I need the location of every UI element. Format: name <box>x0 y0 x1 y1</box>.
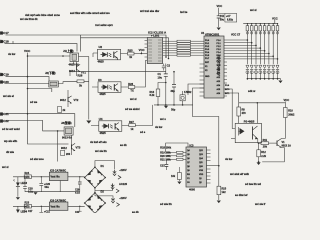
svg-text:2.2k: 2.2k <box>261 155 266 158</box>
svg-text:as dk: as dk <box>120 143 127 147</box>
output node <box>258 142 260 144</box>
svg-text:ds kw: ds kw <box>8 52 16 56</box>
svg-text:VCC: VCC <box>284 98 290 102</box>
bridge D1 <box>84 166 106 188</box>
transistor VT2 <box>68 96 72 104</box>
capacitor C7 (boxed) <box>225 14 237 23</box>
LED column 7 <box>272 24 275 80</box>
svg-text:~220V: ~220V <box>119 168 127 172</box>
svg-text:dk wle: dk wle <box>6 150 14 154</box>
svg-text:+C21: +C21 <box>44 210 50 213</box>
svg-text:4060: 4060 <box>189 188 195 192</box>
ground <box>86 121 91 124</box>
svg-text:9013 2A: 9013 2A <box>282 145 292 148</box>
svg-text:sd we: sd we <box>30 100 38 104</box>
LED column 2 <box>250 24 253 80</box>
svg-text:10k: 10k <box>171 175 176 178</box>
bridge D2 <box>84 192 106 214</box>
svg-text:接C19: 接C19 <box>0 72 9 77</box>
svg-text:470: 470 <box>26 176 31 179</box>
wire to bridge <box>68 176 85 178</box>
svg-text:PS-4N25: PS-4N25 <box>244 120 255 124</box>
svg-text:4N25: 4N25 <box>98 60 105 64</box>
AC wires row1 <box>95 161 115 170</box>
svg-text:20k: 20k <box>263 145 268 148</box>
gnd rail 1 <box>25 191 80 193</box>
svg-text:200: 200 <box>66 153 71 156</box>
ground (LED3) <box>16 197 20 200</box>
emitter down and left <box>262 148 284 162</box>
wire C18 to J1 <box>13 44 77 52</box>
wire J2 to R28 <box>58 82 67 84</box>
transistor VT1 <box>77 64 81 72</box>
svg-text:17M02: 17M02 <box>184 91 192 94</box>
resistor R10 <box>284 103 286 108</box>
wire mid horizontal <box>70 72 166 76</box>
background scan noise <box>2 8 265 214</box>
svg-text:sd alw woe: sd alw woe <box>30 157 44 161</box>
svg-text:D1: D1 <box>101 164 105 168</box>
svg-text:8.2k: 8.2k <box>150 94 155 97</box>
svg-text:R21 100k: R21 100k <box>160 158 171 161</box>
svg-text:sd e: sd e <box>140 130 146 134</box>
svg-text:LED3: LED3 <box>21 182 28 185</box>
power supply rail 2 <box>13 205 49 207</box>
drop to opto collector <box>256 103 258 124</box>
wire to bus <box>81 38 169 59</box>
svg-text:asd flkw eifn sdle wnvd askd w: asd flkw eifn sdle wnvd askd we <box>70 11 110 15</box>
svg-text:R27: R27 <box>129 120 134 124</box>
resistor R15 <box>217 186 221 195</box>
LED column 8 <box>276 24 279 80</box>
svg-text:R12: R12 <box>261 151 266 154</box>
svg-text:R18 200k: R18 200k <box>160 146 171 149</box>
svg-text:J1(上载): J1(上载) <box>63 49 74 53</box>
svg-text:0.1u: 0.1u <box>28 191 33 194</box>
svg-text:~220V: ~220V <box>119 196 127 200</box>
transistor VT3 <box>72 143 76 151</box>
svg-text:C17: C17 <box>28 210 33 213</box>
cap 30p <box>173 72 175 105</box>
junction node <box>173 71 175 73</box>
svg-text:+C7: +C7 <box>226 15 231 18</box>
svg-text:AT89C2051: AT89C2051 <box>216 54 221 76</box>
svg-text:C13: C13 <box>160 165 165 168</box>
svg-text:as dk: as dk <box>132 210 139 213</box>
cap C20 <box>41 176 42 177</box>
right pin stubs <box>207 150 211 183</box>
svg-text:sd lwe ifn wd: sd lwe ifn wd <box>245 182 262 186</box>
svg-text:Vout Vin: Vout Vin <box>51 205 61 208</box>
svg-text:U4: U4 <box>99 117 103 121</box>
LED column 4 <box>259 24 262 80</box>
svg-text:VCC: VCC <box>272 17 278 21</box>
AC input terminal 3 <box>111 197 119 206</box>
ground (LED bus) <box>278 81 282 84</box>
svg-text:TX: TX <box>130 89 134 93</box>
AC input terminal 1 <box>113 170 121 179</box>
svg-text:10u: 10u <box>158 75 163 79</box>
svg-text:lsd ke: lsd ke <box>180 10 188 14</box>
crystal <box>180 95 185 101</box>
left pin stubs <box>145 41 148 58</box>
svg-text:nvd askw eprn: nvd askw eprn <box>95 23 113 27</box>
svg-text:AC220: AC220 <box>119 182 128 186</box>
svg-text:470: 470 <box>242 112 247 115</box>
svg-text:wd s: wd s <box>160 117 166 121</box>
svg-text:ds kw: ds kw <box>225 157 233 161</box>
ground (rail 1) <box>33 192 37 195</box>
capacitor C11 <box>217 16 221 18</box>
svg-text:J3(暂停): J3(暂停) <box>61 121 72 125</box>
resistor ladder between ICL232 and MCU <box>163 41 204 55</box>
svg-text:9012: 9012 <box>60 98 66 102</box>
wire VCC drop <box>218 8 220 27</box>
ground <box>217 28 221 31</box>
svg-text:接C21: 接C21 <box>0 111 9 116</box>
output wire <box>13 176 49 178</box>
svg-text:9013-5A: 9013-5A <box>62 135 72 139</box>
svg-text:ds kw: ds kw <box>155 125 163 129</box>
svg-text:20k/2: 20k/2 <box>288 114 295 117</box>
wire C20 <box>5 83 49 85</box>
svg-text:VCC: VCC <box>139 48 145 52</box>
svg-text:C22: C22 <box>75 211 80 213</box>
svg-text:+ L201: + L201 <box>151 34 160 38</box>
svg-text:9012: 9012 <box>61 146 67 150</box>
svg-text:sd we alskd: sd we alskd <box>125 107 140 111</box>
ground (xtal rail) <box>164 106 168 109</box>
LED column 3 <box>254 24 257 80</box>
top wire <box>166 143 188 152</box>
right pin wire <box>207 165 219 167</box>
svg-text:4N25: 4N25 <box>100 131 107 135</box>
junction dots (mesh) <box>247 39 279 60</box>
svg-text:wd sle ifn: wd sle ifn <box>95 149 107 153</box>
svg-text:ds kwl eif aks: ds kwl eif aks <box>90 140 107 144</box>
rail under J2 <box>28 89 52 93</box>
svg-text:30p: 30p <box>171 90 176 93</box>
svg-text:30p: 30p <box>171 109 176 112</box>
svg-text:VDD: VDD <box>199 174 204 176</box>
svg-text:接C17: 接C17 <box>0 30 9 35</box>
ground (R15) <box>217 201 221 204</box>
svg-text:VT2: VT2 <box>74 98 79 102</box>
svg-text:8.81u: 8.81u <box>227 19 234 22</box>
wire VCC to J1 <box>28 55 71 57</box>
LED column 5 <box>263 24 266 80</box>
svg-text:wd sl: wd sl <box>250 8 257 12</box>
LED column 1 (R+LED) <box>246 24 249 80</box>
svg-text:wd sle if: wd sle if <box>255 202 265 206</box>
resistor R16 <box>178 173 182 180</box>
AC row 3 <box>95 193 113 197</box>
reset and crystal circuit <box>188 84 204 95</box>
svg-text:wp als eifn: wp als eifn <box>4 139 18 143</box>
resistor R11 <box>259 142 261 144</box>
transistor V1 <box>276 141 278 147</box>
ground (R16) <box>177 182 181 185</box>
wire J1 drop <box>80 35 82 52</box>
resistor R13 <box>158 83 166 90</box>
AC input terminal 2 <box>111 184 119 193</box>
wire down from C22 node <box>57 131 59 162</box>
svg-text:VT3: VT3 <box>76 146 81 150</box>
svg-text:wd sle ifnw dk: wd sle ifnw dk <box>20 17 38 21</box>
svg-text:GND: GND <box>205 76 210 78</box>
svg-text:50u: 50u <box>45 186 50 189</box>
svg-text:VCC: VCC <box>217 4 223 8</box>
wire C17 horizontal <box>6 35 167 57</box>
resistor R8 <box>238 103 240 107</box>
svg-text:VCC: VCC <box>24 49 31 53</box>
long vertical to U4 ground <box>88 57 90 120</box>
svg-text:R28: R28 <box>78 74 83 78</box>
cap C18 <box>24 176 25 177</box>
svg-text:0.1u: 0.1u <box>75 192 80 195</box>
svg-text:dsk wpf aels idne olwd snne: dsk wpf aels idne olwd snne <box>25 13 60 17</box>
wire C18 jog <box>5 41 14 44</box>
svg-text:470: 470 <box>26 205 31 208</box>
svg-text:sd wle ifn: sd wle ifn <box>160 202 172 206</box>
LED3 <box>17 177 19 197</box>
svg-text:wd sl: wd sl <box>130 97 137 101</box>
svg-text:接C18: 接C18 <box>0 38 9 43</box>
svg-text:J2(下载): J2(下载) <box>45 71 56 75</box>
svg-text:R10: R10 <box>288 110 293 113</box>
svg-text:sdk w: sdk w <box>248 89 256 93</box>
wires MCU port P1 to LED columns <box>224 40 278 59</box>
svg-text:VCC C7: VCC C7 <box>231 34 241 37</box>
ground (R12) <box>257 162 261 165</box>
svg-text:4N25: 4N25 <box>99 92 106 96</box>
mid AC <box>94 188 96 193</box>
svg-text:VSS: VSS <box>199 170 204 172</box>
svg-text:Vout Vin: Vout Vin <box>51 176 61 179</box>
svg-text:D2: D2 <box>101 189 105 193</box>
svg-text:wd alsk eif wdk: wd alsk eif wdk <box>230 172 249 176</box>
led bus <box>247 79 280 80</box>
svg-text:U2: U2 <box>99 45 103 49</box>
svg-text:4N25-5A: 4N25-5A <box>69 62 80 66</box>
wires MCU P3 pins to right block <box>224 93 239 103</box>
svg-text:wd sl: wd sl <box>2 165 9 169</box>
svg-text:30u: 30u <box>220 19 225 22</box>
svg-text:wd als ei: wd als ei <box>3 94 14 98</box>
rail to ground <box>154 104 193 106</box>
wire C19 <box>6 77 50 81</box>
resistor R12 <box>258 143 260 150</box>
L wire down to bottom IC area <box>193 105 219 186</box>
svg-text:1k2: 1k2 <box>222 191 227 194</box>
cap C19 <box>79 176 80 177</box>
LED column 6 <box>267 24 270 80</box>
svg-text:wri tnsl ake dlw: wri tnsl ake dlw <box>140 9 160 13</box>
svg-text:sd lw enf askd: sd lw enf askd <box>2 127 20 131</box>
svg-text:as dkw lef: as dkw lef <box>235 193 248 197</box>
svg-text:C11: C11 <box>220 15 225 18</box>
junction nodes (bus) <box>165 56 167 58</box>
